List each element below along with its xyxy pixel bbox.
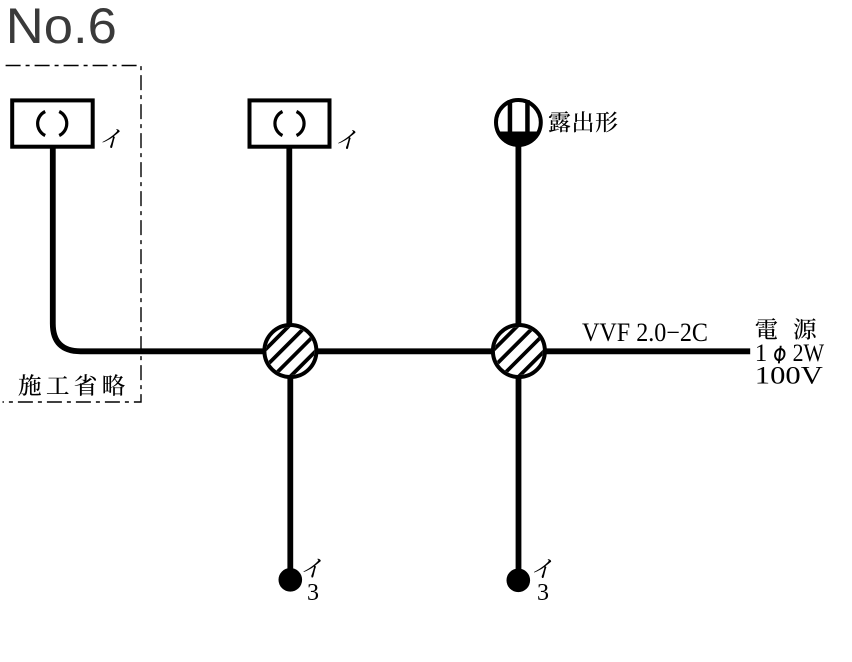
svg-text:VVF 2.0−2C: VVF 2.0−2C [582, 318, 708, 347]
svg-text:3: 3 [537, 580, 549, 606]
svg-text:No.6: No.6 [6, 0, 117, 54]
svg-text:100V: 100V [755, 363, 823, 390]
svg-text:3: 3 [307, 580, 319, 606]
